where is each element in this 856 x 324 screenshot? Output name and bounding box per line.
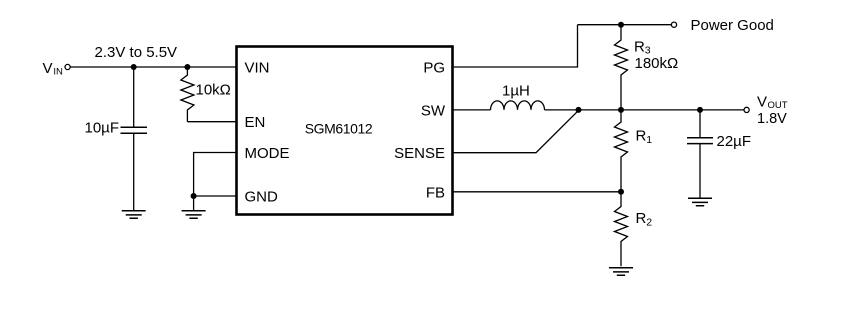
wire power good rail [578, 24, 672, 26]
svg-text:180kΩ: 180kΩ [635, 55, 679, 72]
svg-text:10µF: 10µF [85, 120, 120, 137]
wire C1 to ground [133, 133, 135, 210]
wire EN pin [187, 121, 236, 123]
wire junction to ground [193, 196, 195, 211]
svg-text:1: 1 [646, 134, 652, 146]
node PG pull-up junction [618, 22, 624, 28]
node EN pull-up junction [184, 64, 190, 70]
resistor R1 [615, 110, 628, 192]
svg-text:10kΩ: 10kΩ [196, 82, 231, 99]
resistor R2 [615, 192, 628, 266]
wire PG pin riser [453, 25, 578, 67]
node R3 R1 junction [618, 107, 624, 113]
wire SENSE pin with diagonal [453, 110, 579, 152]
ground R2 [609, 268, 633, 276]
svg-text:SW: SW [421, 102, 446, 119]
svg-text:R: R [636, 128, 647, 145]
svg-text:EN: EN [245, 114, 266, 131]
svg-text:Power Good: Power Good [691, 17, 774, 34]
svg-text:2.3V to 5.5V: 2.3V to 5.5V [95, 44, 178, 61]
svg-text:OUT: OUT [768, 100, 788, 111]
IC U1 SGM61012 body [237, 47, 453, 215]
ground IC GND [182, 211, 206, 219]
svg-text:FB: FB [426, 184, 445, 201]
svg-text:SENSE: SENSE [394, 145, 445, 162]
inductor L1 1uH [491, 101, 545, 110]
wire VIN input rail [70, 66, 237, 68]
svg-text:GND: GND [245, 189, 279, 206]
terminal VOUT [744, 107, 749, 112]
svg-text:R: R [634, 38, 645, 55]
wire to C2 top [699, 110, 701, 138]
svg-text:22µF: 22µF [717, 133, 752, 150]
capacitor C2 22uF [687, 138, 713, 144]
wire SW pin [453, 109, 491, 111]
node MODE GND junction [191, 193, 197, 199]
svg-text:V: V [43, 60, 53, 77]
svg-text:MODE: MODE [245, 145, 290, 162]
wire FB pin [453, 191, 622, 193]
svg-text:V: V [757, 94, 767, 111]
resistor R3 180k [615, 25, 628, 110]
capacitor C1 10uF [121, 127, 148, 133]
svg-text:SGM61012: SGM61012 [305, 121, 373, 137]
svg-text:1µH: 1µH [502, 83, 530, 100]
node SENSE junction [576, 107, 582, 113]
wire GND pin [194, 195, 237, 197]
terminal Power Good [671, 22, 676, 27]
svg-text:2: 2 [646, 216, 652, 228]
ground C1 [122, 211, 146, 219]
svg-text:PG: PG [423, 60, 445, 77]
svg-text:IN: IN [53, 66, 63, 77]
wire output rail [545, 109, 745, 111]
svg-text:R: R [636, 210, 647, 227]
resistor R_EN 10k [181, 67, 194, 122]
svg-text:VIN: VIN [245, 60, 270, 77]
svg-text:1.8V: 1.8V [757, 111, 787, 127]
wire MODE pin to ground [194, 153, 237, 197]
node input cap junction [131, 64, 137, 70]
ground C2 [688, 198, 712, 206]
wire to C1 top [133, 67, 135, 127]
wire C2 to ground [699, 144, 701, 198]
node output cap junction [697, 107, 703, 113]
node FB junction [618, 189, 624, 195]
terminal VIN input [65, 64, 70, 69]
